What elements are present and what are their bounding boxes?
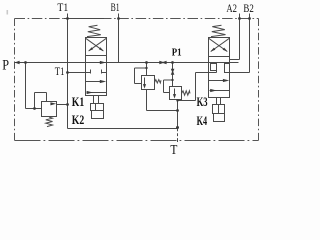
svg-text:T1: T1 (55, 66, 65, 78)
svg-text:K4: K4 (197, 114, 208, 128)
svg-text:K2: K2 (72, 113, 85, 127)
svg-text:K3: K3 (197, 95, 208, 109)
svg-text:B2: B2 (243, 1, 253, 15)
svg-text:P1: P1 (172, 48, 182, 59)
svg-text:T1: T1 (57, 0, 68, 14)
svg-text:A2: A2 (226, 1, 237, 15)
svg-text:P: P (2, 57, 9, 73)
svg-text:K1: K1 (72, 95, 85, 109)
svg-text:B1: B1 (111, 0, 120, 14)
svg-text:T: T (170, 143, 177, 158)
